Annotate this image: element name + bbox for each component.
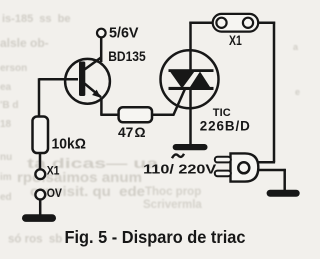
transistor Q1 BD135 — [65, 57, 110, 103]
wire MT2 vertical — [189, 22, 192, 70]
wire right ground vertical — [283, 169, 286, 191]
wire gate diagonal — [173, 90, 184, 116]
svg-text:TIC: TIC — [213, 107, 233, 119]
svg-text:10kΩ: 10kΩ — [52, 136, 87, 152]
svg-text:ea: ea — [0, 82, 12, 93]
wire stadium right — [258, 21, 276, 24]
svg-text:X1: X1 — [47, 164, 60, 178]
svg-text:'B d: 'B d — [0, 100, 19, 111]
wire right vertical — [273, 22, 276, 163]
connector X1 (top) — [213, 14, 259, 32]
svg-text:47 Ω: 47 Ω — [118, 124, 146, 140]
svg-text:alsle ob-: alsle ob- — [0, 36, 49, 50]
plug P1 — [215, 153, 258, 181]
label AC tilde — [172, 154, 184, 158]
svg-text:Scrivermla: Scrivermla — [143, 199, 202, 211]
svg-text:nu: nu — [0, 152, 12, 163]
svg-text:ed: ed — [0, 192, 12, 203]
wire 10k to X1 terminal — [39, 152, 42, 169]
terminal X1 (bottom left) — [35, 169, 45, 179]
svg-text:18: 18 — [0, 119, 12, 130]
terminal 5/6V — [97, 29, 106, 38]
svg-text:Fig. 5 - Disparo de triac: Fig. 5 - Disparo de triac — [65, 227, 246, 247]
triac TIC226 — [161, 50, 219, 108]
resistor R1 10k — [33, 117, 49, 154]
svg-text:im: im — [0, 172, 12, 183]
wire base vertical — [38, 78, 41, 117]
wire stadium left — [189, 21, 213, 24]
wire plug bottom — [257, 169, 286, 172]
ground left — [22, 214, 56, 222]
resistor R2 47 ohm — [119, 107, 152, 122]
terminal 0V — [35, 190, 45, 200]
wire emitter vertical — [100, 98, 103, 115]
svg-text:110/ 220V: 110/ 220V — [143, 162, 216, 177]
svg-text:X1: X1 — [229, 33, 242, 48]
svg-text:BD135: BD135 — [108, 48, 146, 64]
ground mid (under triac) — [173, 144, 208, 150]
svg-text:is-185 ss be: is-185 ss be — [2, 13, 71, 25]
wire emitter to 47ohm — [100, 114, 119, 117]
wire collector vertical — [100, 37, 103, 62]
svg-text:Thoc prop: Thoc prop — [145, 186, 201, 198]
svg-text:erson: erson — [0, 63, 27, 74]
svg-text:226B/D: 226B/D — [200, 118, 250, 133]
wire 47ohm to gate — [151, 114, 174, 117]
wire 0V to ground — [39, 200, 42, 216]
svg-text:5/6V: 5/6V — [109, 25, 139, 41]
svg-text:e: e — [295, 87, 300, 97]
wire plug top — [258, 161, 276, 164]
wire MT1 vertical — [189, 89, 192, 145]
svg-text:só ros sb: só ros sb — [8, 234, 62, 246]
svg-text:OV: OV — [47, 186, 62, 200]
ground right — [267, 190, 300, 197]
wire base horizontal — [39, 78, 78, 81]
